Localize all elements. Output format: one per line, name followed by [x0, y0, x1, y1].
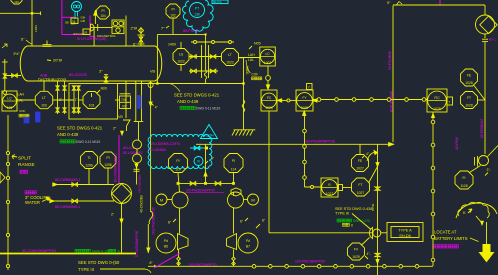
svg-text:00: 00: [122, 104, 126, 108]
svg-text:20-LS60MS-C2970: 20-LS60MS-C2970: [151, 142, 180, 146]
svg-text:Pd: Pd: [164, 239, 168, 243]
svg-text:80-P606: 80-P606: [455, 137, 459, 150]
svg-text:1028: 1028: [433, 107, 441, 111]
svg-text:LAL: LAL: [18, 99, 24, 103]
svg-text:100-PW21BWPP30: 100-PW21BWPP30: [295, 260, 325, 264]
svg-text:LT: LT: [42, 96, 46, 100]
svg-text:PI: PI: [232, 159, 235, 163]
note SEE STD DWGS B: [57, 126, 103, 145]
pipe bottoms header y83: [118, 82, 245, 91]
note SEE STD DWG 0-150: [78, 260, 157, 273]
vessel label AdB distributor: [38, 74, 66, 83]
instrument bubble PI 102: [166, 4, 180, 34]
wire vertical x393: [392, 6, 394, 143]
svg-text:82=A9/8AX: 82=A9/8AX: [149, 148, 167, 152]
svg-text:SEE STD DWGS 0-421: SEE STD DWGS 0-421: [174, 93, 220, 98]
svg-text:14B1: 14B1: [34, 25, 38, 32]
svg-text:LAH: LAH: [248, 53, 255, 57]
wire FT to line: [474, 86, 485, 101]
svg-text:102: 102: [170, 14, 176, 18]
svg-text:1128: 1128: [460, 184, 467, 188]
interlock cloud: [148, 134, 212, 168]
NaOH triangle: [201, 125, 218, 139]
svg-text:1022: 1022: [177, 59, 185, 63]
svg-text:B5: B5: [164, 245, 168, 249]
pipe top right header: [387, 1, 485, 15]
pipe main line: [196, 143, 394, 147]
instrument bubble PI 104: [97, 6, 110, 19]
control valve top right: [476, 15, 498, 154]
gauge glass bridle 103: [56, 81, 118, 119]
svg-text:130: 130: [194, 13, 200, 17]
magenta stub top: [439, 0, 441, 5]
svg-text:7: 7: [448, 101, 450, 105]
svg-text:N05: N05: [254, 42, 261, 46]
note SEE STD DWGS A: [174, 93, 220, 111]
label N00: [97, 86, 107, 93]
wire vertical x33: [0, 0, 41, 46]
label 6in left: [21, 38, 32, 45]
svg-text:1028: 1028: [465, 81, 473, 85]
junction drop x377: [367, 144, 380, 275]
svg-text:TYPE A: TYPE A: [398, 229, 412, 233]
pressure transmitter PT 130 cyan: [183, 0, 214, 34]
eductor: [475, 146, 498, 167]
svg-text:DWG 0-150: DWG 0-150: [92, 250, 110, 254]
magenta label 80-P1624N46: [390, 91, 394, 112]
svg-text:FIC: FIC: [434, 96, 440, 100]
label left of cloud: [123, 146, 143, 155]
label 100-PW24RWPP30: [304, 140, 335, 144]
svg-text:FT: FT: [358, 183, 362, 187]
svg-text:1029: 1029: [352, 255, 360, 259]
motor M left: [156, 194, 172, 205]
label 6in right: [240, 218, 248, 224]
svg-text:Pd: Pd: [246, 239, 250, 243]
svg-text:(00-PW20SWPP30: (00-PW20SWPP30: [186, 189, 215, 193]
wire drop to gauge bridle: [204, 34, 207, 83]
magenta line CWS: [114, 135, 120, 184]
svg-text:PI: PI: [101, 9, 104, 13]
svg-text:1027: 1027: [326, 192, 334, 196]
pipe label 80-CDX25: [69, 73, 87, 77]
level transmitter LT 1022: [222, 49, 239, 66]
cooler diamond: [111, 184, 132, 254]
svg-text:1022: 1022: [226, 60, 234, 64]
signal FY-FIC: [313, 98, 427, 102]
note SPLIT RANGE: [12, 155, 35, 174]
svg-text:LC: LC: [265, 52, 270, 56]
svg-text:80-PS: 80-PS: [213, 0, 221, 4]
svg-text:PI: PI: [176, 159, 179, 163]
svg-text:3/8: 3/8: [65, 21, 69, 25]
svg-text:LG: LG: [179, 52, 184, 56]
fat arrow utility: [480, 222, 494, 262]
note dwg green bottom: [75, 249, 121, 253]
pump casing left: [172, 192, 188, 234]
instrument bubble top-left partial: [11, 0, 22, 4]
label 80-CWS60MS-1: [55, 205, 81, 209]
svg-text:D0-CW23Bdx: D0-CW23Bdx: [138, 174, 142, 193]
label SH-FLUSHING: [77, 34, 116, 41]
cooler body: [50, 183, 114, 203]
signal bottom header: [148, 265, 433, 269]
wire vertical x126: [126, 16, 137, 47]
labels LAH LAL 103: [18, 93, 25, 103]
svg-text:WATER: WATER: [25, 200, 40, 205]
svg-text:COF: COF: [252, 73, 259, 77]
revision cloud K: [458, 202, 489, 224]
flow transmitter FT 1028: [461, 92, 478, 109]
svg-text:LC: LC: [7, 96, 12, 100]
svg-text:4"-: 4"-: [367, 252, 371, 256]
pump casing right: [228, 192, 244, 234]
svg-text:DWG 0-11 M119: DWG 0-11 M119: [196, 107, 220, 111]
cyan tag box top: [212, 0, 228, 4]
label 7in: [161, 26, 169, 31]
motor M right: [244, 194, 259, 205]
tank arc bottom right: [456, 203, 497, 218]
svg-text:103: 103: [89, 103, 95, 107]
label COF centerline: [246, 60, 262, 80]
small box 103b: [73, 29, 90, 36]
cloud bubble N: [194, 157, 203, 166]
svg-text:80-CDX25: 80-CDX25: [69, 73, 87, 77]
rotated magenta label D-CWR: [135, 174, 142, 257]
pressure gauge PI 114: [224, 154, 243, 173]
svg-text:1027: 1027: [356, 166, 364, 170]
pump body right: [227, 233, 259, 266]
label N05: [249, 42, 261, 50]
svg-text:1400: 1400: [168, 43, 176, 47]
ground symbol drain: [232, 130, 255, 136]
svg-text:PI: PI: [106, 156, 109, 160]
level gauge LG 1022: [173, 49, 189, 65]
flow controller FC 1026: [261, 90, 277, 111]
pipe vapor line from vessel: [157, 33, 206, 83]
fitting labels GB: [65, 16, 85, 26]
svg-text:M: M: [251, 198, 254, 203]
label 80-CWR60MS-1: [55, 178, 81, 182]
svg-text:1": 1": [75, 98, 78, 102]
pipe bottom header: [0, 253, 136, 255]
vessel drain right: [126, 81, 158, 212]
rotated yellow label 40-L: [140, 195, 144, 213]
blue highlight 1: [138, 96, 142, 109]
small box 103a: [71, 18, 78, 24]
svg-text:03: 03: [72, 19, 76, 23]
svg-text:PI: PI: [171, 8, 174, 12]
svg-text:80-CWR60MS-1: 80-CWR60MS-1: [55, 178, 81, 182]
cloud valve cyan: [190, 146, 208, 150]
signal FIC down: [431, 112, 435, 266]
svg-text:TI: TI: [87, 156, 90, 160]
relay R 1027: [321, 178, 352, 197]
valve 3in on vessel right nozzle: [99, 70, 108, 84]
svg-text:MB00: MB00: [245, 66, 249, 75]
pressure indicator PI 1296: [100, 152, 116, 185]
svg-text:TYPE III: TYPE III: [335, 212, 349, 216]
note cooling water: [25, 191, 51, 205]
magnetrol box: [112, 20, 124, 34]
svg-text:K: K: [463, 210, 466, 215]
svg-text:50-CD60394dPP30: 50-CD60394dPP30: [22, 248, 57, 253]
label COF 103: [19, 109, 29, 123]
hose to pump suction: [147, 211, 153, 253]
feed line left edge: [2, 44, 21, 95]
svg-text:FE: FE: [358, 159, 363, 163]
label 8in left: [168, 219, 176, 225]
svg-text:D01-PW23BdPP30: D01-PW23BdPP30: [152, 207, 156, 235]
label 8in right pump: [256, 219, 266, 229]
magenta label 100-PW21 left: [154, 253, 217, 268]
pressure gauge PI 110: [169, 154, 188, 173]
flow transmitter FT 1027: [352, 167, 378, 197]
svg-text:M: M: [160, 198, 163, 203]
wire FC output: [269, 111, 373, 233]
svg-text:SEE STD DWG 0-438: SEE STD DWG 0-438: [335, 207, 372, 211]
svg-text:PT: PT: [195, 7, 199, 11]
label 80-PS-1B: [183, 29, 199, 33]
svg-text:80-LG60MS2: 80-LG60MS2: [123, 151, 143, 155]
svg-text:COF: COF: [19, 109, 26, 113]
svg-text:114: 114: [231, 167, 237, 171]
gauge bridle valves: [181, 42, 222, 78]
note magenta battery: [434, 245, 458, 248]
svg-text:N00: N00: [101, 86, 107, 90]
svg-text:1296: 1296: [85, 163, 93, 167]
svg-text:1027: 1027: [357, 191, 365, 195]
label 00-PW20SWPP30: [185, 189, 224, 193]
svg-text:FV: FV: [354, 247, 359, 251]
svg-text:BATTERY LIMITS: BATTERY LIMITS: [434, 236, 468, 241]
cloud text 2: [149, 148, 167, 152]
svg-text:SEE STD DWG 0-(50: SEE STD DWG 0-(50: [78, 260, 120, 265]
seal pot TYPE A box: [381, 223, 423, 242]
drain line MB00: [239, 58, 250, 130]
svg-text:RANGE: RANGE: [18, 162, 35, 167]
temperature indicator TI 1296: [81, 152, 98, 185]
labels LAH LAL: [239, 53, 260, 62]
svg-text:7: 7: [308, 86, 310, 90]
svg-text:103: 103: [41, 104, 47, 108]
eductor at seal pot: [369, 228, 380, 239]
signal line gauge top: [168, 41, 234, 47]
signal FC-FY: [277, 99, 296, 102]
valve train x141: [133, 27, 145, 47]
wire LC to FC: [266, 66, 271, 90]
flow controller FIC 1028: [427, 89, 453, 112]
svg-text:FI: FI: [462, 176, 465, 180]
svg-text:30-CWS60MS/PP30: 30-CWS60MS/PP30: [114, 153, 118, 182]
svg-text:1029: 1029: [301, 106, 309, 110]
valve station small circles: [133, 140, 142, 185]
control valve split range: [0, 115, 10, 270]
svg-text:80-CWS60MS-1: 80-CWS60MS-1: [55, 205, 81, 209]
svg-text:1026: 1026: [265, 106, 273, 110]
signal FY down to R: [303, 111, 321, 189]
label VB funnel: [113, 115, 130, 135]
flow element FE 1027: [352, 144, 370, 171]
svg-text:03: 03: [84, 30, 88, 34]
svg-text:LT: LT: [228, 53, 232, 57]
flow valve FV 1029: [348, 238, 371, 261]
riser to main line: [204, 144, 207, 183]
svg-text:FC: FC: [267, 96, 272, 100]
magenta label 80-P60604: [455, 119, 484, 150]
svg-text:2"Ø: 2"Ø: [131, 27, 137, 31]
svg-text:110: 110: [175, 167, 181, 171]
blue highlight 2: [36, 112, 41, 122]
svg-text:VB: VB: [150, 70, 156, 74]
svg-text:1½": 1½": [13, 52, 20, 56]
note SEE STD right: [335, 207, 372, 230]
magenta flush piping network: [62, 0, 94, 36]
level controller LC 103: [2, 91, 17, 111]
vessel V-100 horizontal drum: [20, 41, 162, 82]
svg-text:II: II: [351, 223, 353, 227]
svg-text:80-P60604M: 80-P60604M: [480, 119, 484, 138]
drain U loop: [134, 81, 144, 140]
svg-text:SEE STD DWGS 0-421: SEE STD DWGS 0-421: [57, 126, 103, 131]
svg-text:104: 104: [100, 14, 106, 18]
label 50-CD: [22, 248, 57, 253]
level controller LC 1002: [260, 47, 276, 66]
svg-text:80-PS-1B: 80-PS-1B: [183, 29, 199, 33]
svg-text:MAGNETROL: MAGNETROL: [97, 34, 116, 38]
magenta label 100-PW21 right: [295, 260, 325, 264]
svg-text:20"Ø: 20"Ø: [53, 58, 62, 63]
cloud text 20-LS60MS-C2970: [151, 142, 180, 146]
svg-text:LAL: LAL: [248, 58, 254, 62]
svg-text:TYPE III: TYPE III: [78, 267, 94, 272]
pump suction header: [177, 173, 235, 193]
svg-text:1296: 1296: [104, 163, 112, 167]
svg-text:103: 103: [7, 106, 13, 110]
svg-text:3"-: 3"-: [487, 168, 491, 172]
svg-text:1028: 1028: [465, 103, 473, 107]
svg-text:SH-D6: SH-D6: [399, 234, 410, 238]
flow element FE 1028: [461, 69, 478, 86]
relief valve PSV cyan: [72, 2, 82, 20]
svg-text:AND 0-439: AND 0-439: [177, 99, 199, 104]
relay FY 1029: [296, 84, 317, 116]
rotated magenta label D01-PW: [152, 207, 156, 235]
svg-text:FE: FE: [467, 73, 472, 77]
note LOCATE AT BATTERY LIMITS: [434, 230, 479, 242]
box T00: [115, 94, 131, 109]
svg-text:119: 119: [14, 0, 19, 4]
pump body left: [156, 233, 188, 266]
svg-text:100-PW21BdPP30: 100-PW21BdPP30: [188, 263, 217, 267]
gauge 103 bubble: [79, 92, 101, 109]
svg-text:30-PS24B46: 30-PS24B46: [388, 51, 392, 70]
label VB right of vessel: [150, 70, 156, 74]
svg-text:40-CW23Bd: 40-CW23Bd: [140, 195, 144, 213]
magenta label rotated x390: [388, 51, 392, 70]
svg-text:VB: VB: [118, 115, 123, 119]
level transmitter LT 103: [17, 81, 74, 109]
svg-text:B7: B7: [246, 245, 250, 249]
svg-text:SPLIT: SPLIT: [18, 156, 31, 161]
svg-text:DWG 0-11 M119: DWG 0-11 M119: [76, 140, 100, 144]
pressure indicator FI 1128: [455, 166, 491, 190]
svg-text:AND 0-439: AND 0-439: [57, 132, 79, 137]
svg-text:DISTRIBUTOR: DISTRIBUTOR: [38, 78, 66, 83]
flush valve with actuator: [91, 24, 113, 46]
svg-text:100-PW24RWPP30: 100-PW24RWPP30: [304, 140, 335, 144]
svg-text:FT: FT: [467, 96, 471, 100]
svg-text:GB: GB: [81, 19, 85, 23]
strainer hexagon: [231, 188, 241, 196]
label 4in pumps: [205, 157, 215, 165]
svg-text:2": 2": [59, 98, 62, 102]
svg-text:3/4"x1/2": 3/4"x1/2": [73, 32, 84, 36]
svg-text:LAH: LAH: [18, 93, 25, 97]
wire vertical x95 with arrow: [94, 10, 97, 24]
svg-text:LOCATE AT: LOCATE AT: [434, 230, 457, 235]
svg-text:1002: 1002: [264, 61, 272, 65]
svg-text:4": 4": [155, 106, 158, 110]
svg-text:80-C: 80-C: [489, 38, 496, 42]
